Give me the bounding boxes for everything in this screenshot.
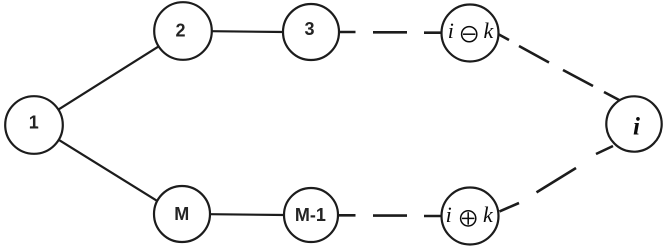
node 1 xyxy=(5,96,63,154)
svg-text:1: 1 xyxy=(29,112,39,132)
svg-text:M-1: M-1 xyxy=(295,205,326,225)
wire dashed edge (i minus k)-i xyxy=(498,34,621,101)
svg-text:2: 2 xyxy=(175,21,185,41)
svg-text:M: M xyxy=(174,204,189,224)
svg-text:i: i xyxy=(448,18,454,43)
wire edge 2-3 xyxy=(212,30,284,33)
wire dashed edge (i plus k)-i xyxy=(500,146,614,211)
wire edge M-(M-1) xyxy=(210,213,285,216)
node 3 xyxy=(283,4,339,60)
svg-text:3: 3 xyxy=(304,19,314,39)
node M-1 xyxy=(284,188,338,242)
wire dashed edge 3-(i minus k) xyxy=(337,31,442,34)
node M xyxy=(154,186,210,242)
wire edge 1-M xyxy=(59,140,159,202)
svg-text:k: k xyxy=(483,202,494,227)
node 2 xyxy=(154,2,212,60)
wire edge 1-2 xyxy=(58,46,158,109)
node i plus k xyxy=(442,188,499,245)
wire dashed edge (M-1)-(i plus k) xyxy=(338,214,442,217)
svg-text:i: i xyxy=(446,202,452,227)
svg-text:k: k xyxy=(484,18,495,43)
node i xyxy=(606,96,661,151)
node i minus k xyxy=(442,5,499,62)
svg-text:i: i xyxy=(633,114,640,141)
